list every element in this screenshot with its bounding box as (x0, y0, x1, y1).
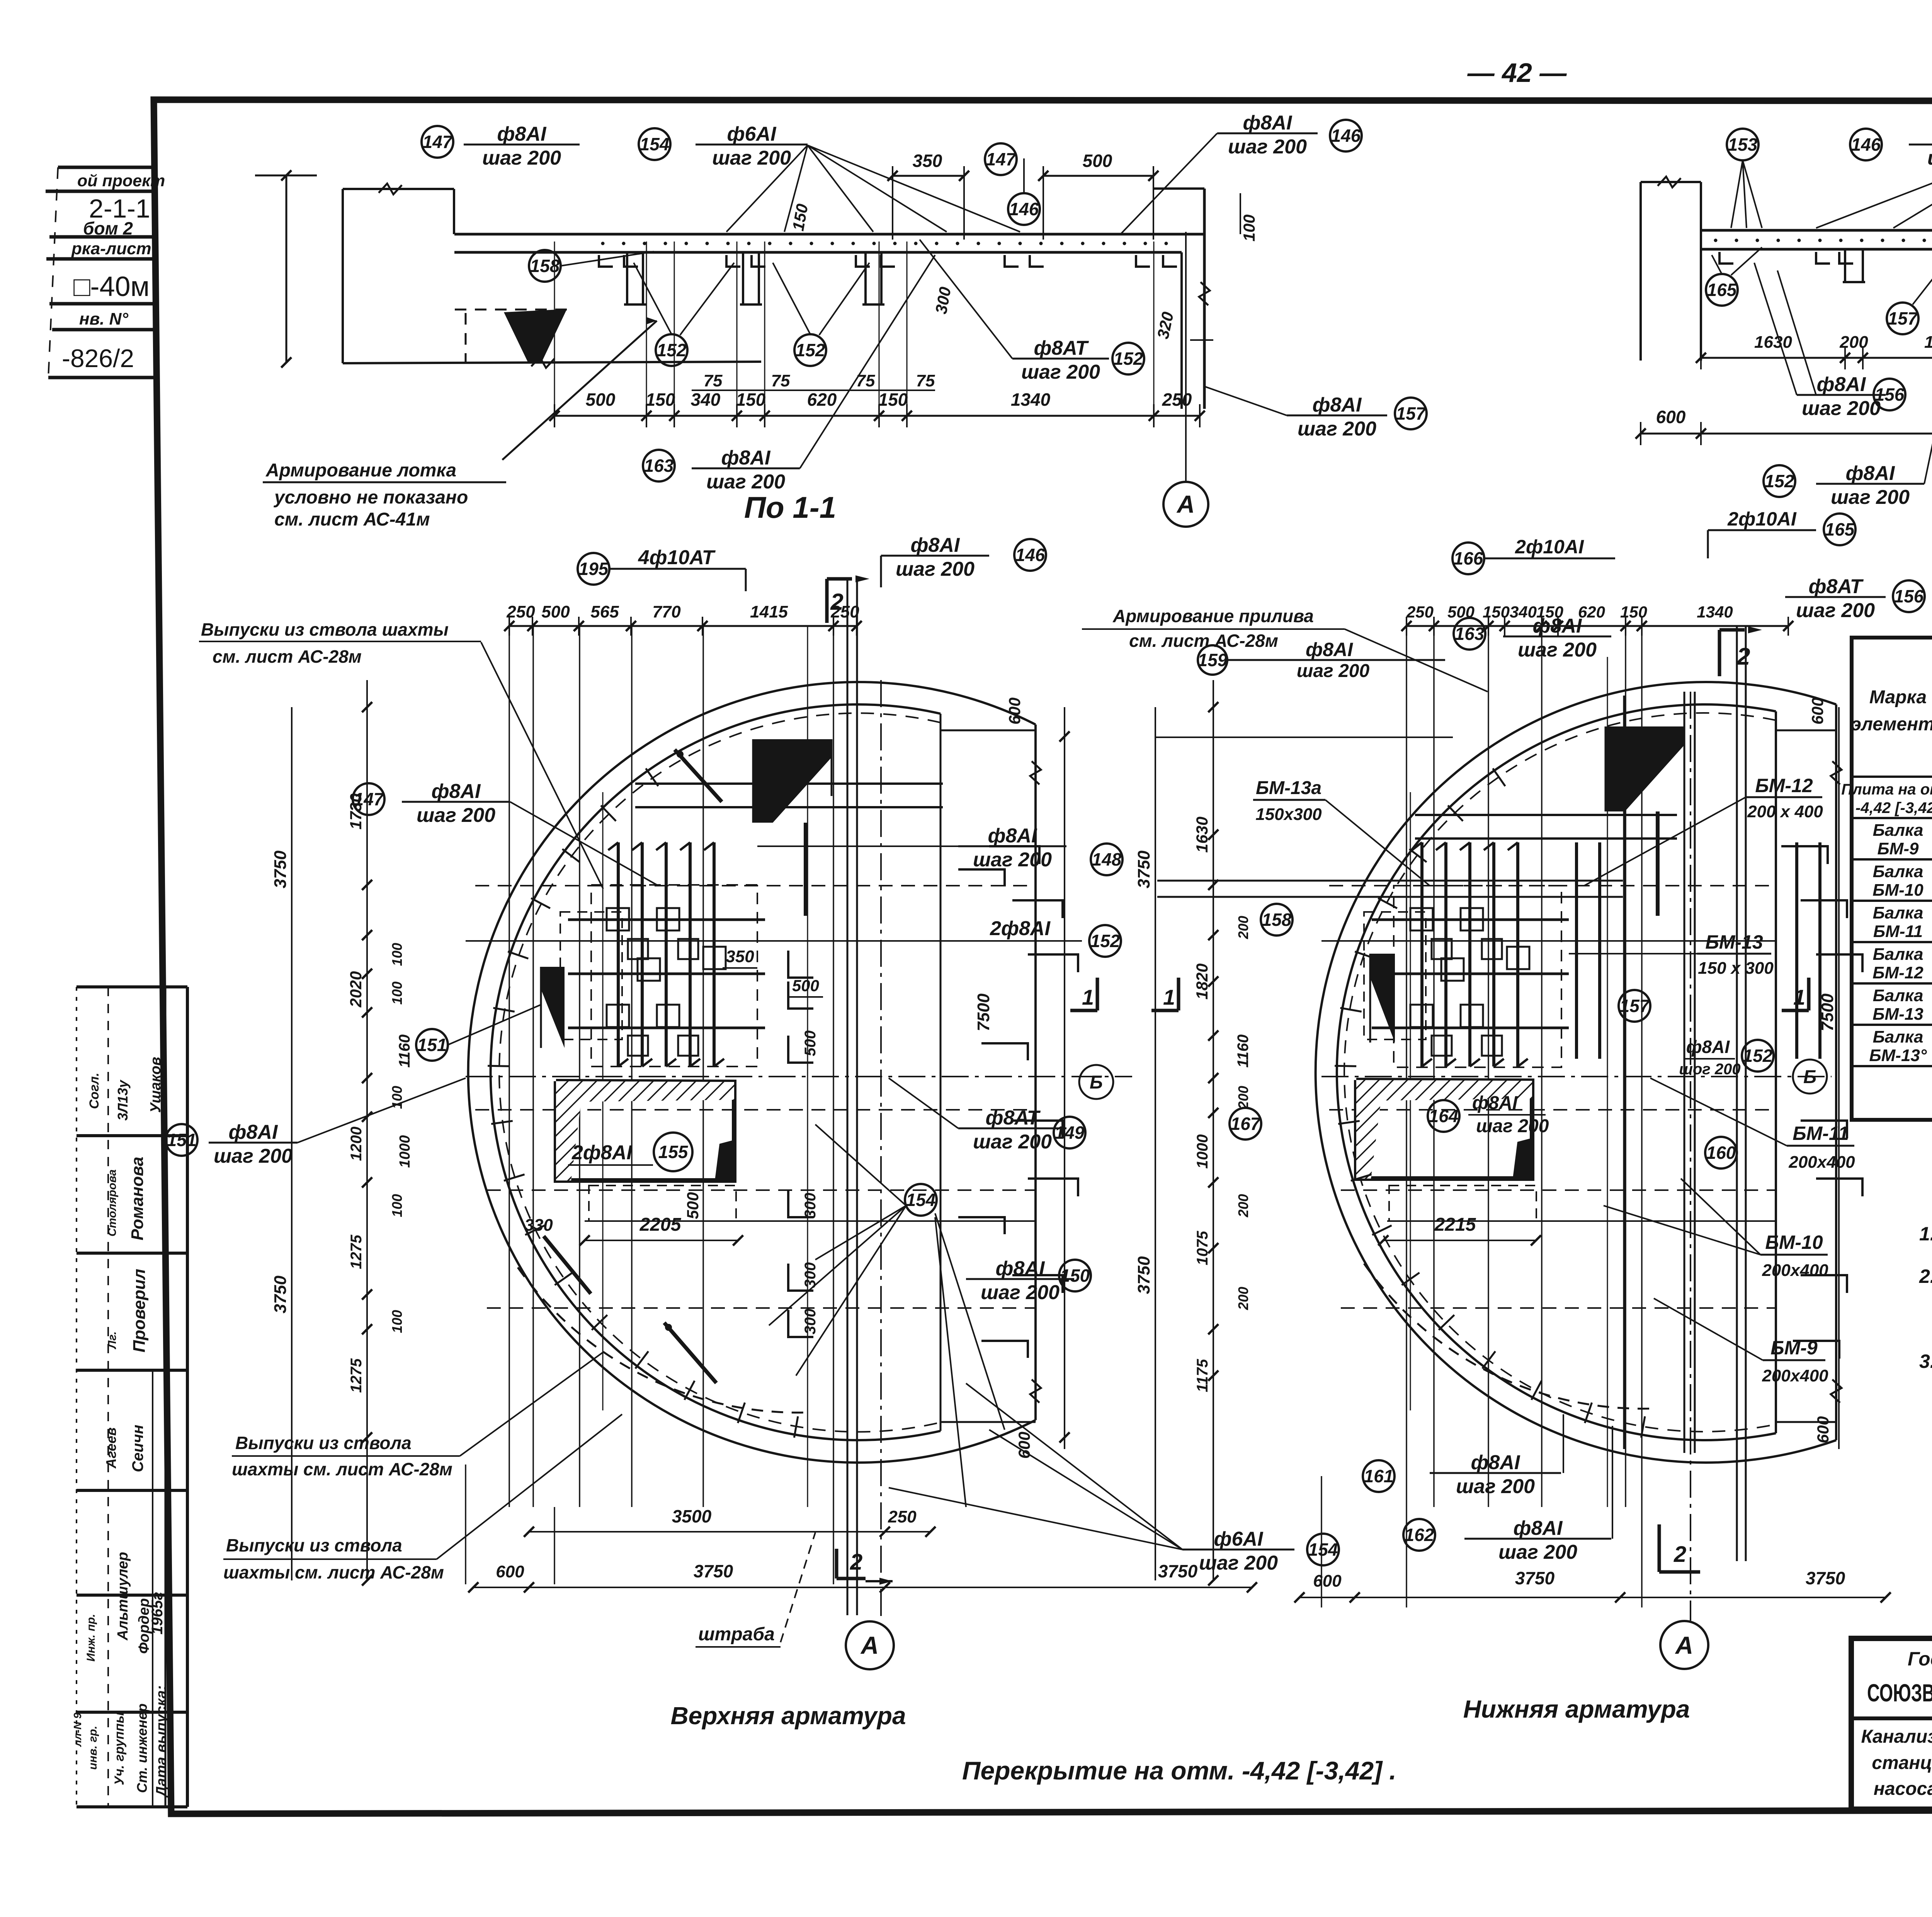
svg-text:350: 350 (726, 947, 754, 966)
svg-text:250: 250 (506, 602, 535, 621)
svg-text:500: 500 (1083, 151, 1112, 171)
shtraba dashed arc left plan (518, 1267, 811, 1413)
outer shaft circle right plan (1316, 682, 1836, 1463)
svg-text:100: 100 (389, 1194, 405, 1217)
svg-text:1075: 1075 (1194, 1231, 1211, 1266)
axis mark circle Б right plan (1793, 1060, 1827, 1094)
svg-text:Б: Б (1803, 1067, 1816, 1087)
svg-text:164: 164 (1429, 1106, 1459, 1126)
svg-text:БМ-10: БМ-10 (1765, 1232, 1823, 1253)
svg-text:Верхняя арматура: Верхняя арматура (670, 1702, 906, 1730)
svg-text:2: 2 (830, 589, 843, 615)
top chord lines right plan (1776, 730, 1836, 731)
svg-text:Сеичн: Сеичн (129, 1425, 146, 1472)
svg-text:1200: 1200 (348, 1127, 365, 1161)
svg-text:ф8АI: ф8АI (1472, 1093, 1518, 1113)
callout circle 157 (1395, 398, 1427, 429)
svg-text:Балка: Балка (1873, 1027, 1923, 1046)
svg-text:шаг 200: шаг 200 (1228, 136, 1307, 158)
rebar diagonal bottom left plan 1 (544, 1236, 591, 1294)
black wedge mid left plan (541, 967, 565, 1048)
dim 2205 under opening (585, 1240, 738, 1241)
svg-text:1160: 1160 (1235, 1034, 1252, 1068)
svg-text:шаг 200: шаг 200 (1021, 361, 1100, 383)
slab hooks section 1-1 (599, 255, 613, 267)
cluster vertical rebars right plan (1420, 842, 1423, 1067)
svg-text:шаг 200: шаг 200 (1796, 599, 1875, 622)
svg-text:330: 330 (524, 1216, 553, 1235)
svg-text:600: 600 (496, 1562, 524, 1581)
dimension row 2 section 2-2 (1641, 433, 1932, 435)
svg-text:насосами 2½НФ или 4НФ: насосами 2½НФ или 4НФ (1874, 1779, 1932, 1799)
svg-text:151: 151 (167, 1130, 197, 1150)
svg-text:шаг 200: шаг 200 (1199, 1552, 1278, 1574)
svg-text:см. лист АС-41м: см. лист АС-41м (274, 509, 430, 530)
horizontal beam lines top right plan (1415, 814, 1677, 816)
svg-text:ф8АТ: ф8АТ (986, 1107, 1041, 1129)
svg-text:3750: 3750 (1134, 1256, 1153, 1294)
svg-text:1820: 1820 (1924, 333, 1932, 352)
svg-text:2: 2 (1736, 643, 1750, 670)
svg-text:БМ-10: БМ-10 (1872, 881, 1923, 900)
long vertical rebars right plan (1575, 842, 1578, 1059)
svg-text:ф8АТ: ф8АТ (1034, 337, 1089, 359)
black corbel top right plan (1605, 726, 1685, 811)
bottom dims left plan row 1 (529, 1531, 930, 1533)
svg-text:154: 154 (906, 1190, 936, 1210)
svg-text:7500: 7500 (974, 993, 993, 1031)
callout circle 160 (1705, 1137, 1737, 1169)
svg-text:152: 152 (1765, 471, 1794, 491)
svg-text:ф8АI: ф8АI (1686, 1037, 1730, 1057)
svg-text:154: 154 (1308, 1539, 1338, 1560)
svg-text:Уч. группы: Уч. группы (112, 1712, 127, 1785)
svg-text:БМ-13: БМ-13 (1872, 1005, 1923, 1024)
svg-text:146: 146 (1331, 126, 1361, 146)
anchor ticks along left plan circle (794, 1416, 798, 1437)
svg-text:ф6АI: ф6АI (727, 123, 777, 145)
hatch band top of opening right plan (1356, 1080, 1532, 1101)
svg-text:1630: 1630 (1193, 816, 1211, 852)
callout circle 158 (529, 250, 561, 282)
corbel stem right plan (1656, 811, 1660, 916)
svg-text:шаг 200: шаг 200 (1476, 1116, 1549, 1136)
callout circle 146 (1850, 129, 1882, 160)
callout circle 165 (1824, 514, 1855, 545)
svg-text:шахты см. лист АС-28м: шахты см. лист АС-28м (232, 1459, 452, 1479)
svg-text:600: 600 (1814, 1416, 1832, 1443)
dashed circle left plan (499, 713, 940, 1432)
callout circle 158 (1261, 904, 1293, 936)
black corbel top left plan (753, 739, 832, 823)
callout circle 152 (1742, 1040, 1774, 1072)
svg-text:условно не показано: условно не показано (274, 487, 468, 508)
dim 2215 under opening right plan (1383, 1240, 1536, 1241)
svg-text:БМ-12: БМ-12 (1872, 963, 1923, 982)
svg-text:154: 154 (640, 134, 670, 154)
svg-text:Согл.: Согл. (87, 1073, 102, 1109)
svg-text:100: 100 (389, 1310, 405, 1333)
svg-text:500: 500 (541, 602, 570, 621)
callout circle 146 (1008, 193, 1040, 225)
callout circle 147 (353, 783, 384, 815)
right dim column right plan (1838, 707, 1840, 1449)
callout circle 146 (1330, 120, 1362, 151)
svg-text:166: 166 (1454, 548, 1483, 568)
svg-text:шаг 200: шаг 200 (1518, 639, 1597, 661)
grid verticals right plan (1406, 626, 1407, 1507)
svg-text:лл-N 9: лл-N 9 (71, 1713, 83, 1747)
svg-text:По 1-1: По 1-1 (744, 490, 836, 524)
callout circle 157 (1887, 303, 1918, 334)
leader fan from 146 (1816, 146, 1932, 228)
straight wall verticals left plan (847, 580, 849, 1615)
svg-text:300: 300 (802, 1193, 819, 1219)
svg-text:200: 200 (1235, 916, 1251, 939)
svg-text:200: 200 (1235, 1086, 1251, 1109)
left dim column right plan (1155, 707, 1156, 1580)
svg-text:Столярова: Столярова (106, 1169, 119, 1237)
svg-text:150х300: 150х300 (1255, 805, 1322, 824)
svg-text:шаг 200: шаг 200 (1498, 1541, 1577, 1563)
central cluster dashed rect right plan (1394, 886, 1561, 1067)
svg-text:Выпуски из ствола шахты: Выпуски из ствола шахты (201, 619, 449, 640)
right plan group (1134, 508, 1925, 1669)
svg-text:БМ-13: БМ-13 (1705, 931, 1763, 953)
svg-text:ф8АI: ф8АI (1817, 373, 1866, 396)
svg-text:1: 1 (1793, 985, 1805, 1009)
svg-text:рка-лист: рка-лист (71, 239, 151, 258)
cluster horizontal rebars right plan (1372, 919, 1569, 921)
corbel stem left plan (804, 823, 808, 916)
rebar diagonal bottom left plan 2 (664, 1323, 716, 1383)
callout circle 150 (1059, 1260, 1091, 1291)
svg-text:148: 148 (1092, 849, 1122, 869)
svg-text:3750: 3750 (1134, 850, 1153, 888)
svg-text:300: 300 (802, 1309, 819, 1335)
horizontal axis Б right plan (1321, 1076, 1832, 1077)
top chord lines left plan (940, 730, 1036, 731)
top-left stamp table (58, 166, 154, 169)
svg-text:500: 500 (586, 390, 616, 410)
hatch band left of opening (556, 1081, 583, 1180)
black corbel wedge section 1-1 (504, 309, 567, 364)
dashed rect below opening left plan (589, 1186, 736, 1221)
svg-text:600: 600 (1313, 1572, 1342, 1590)
svg-text:1415: 1415 (750, 602, 788, 621)
cluster small squares left plan (607, 908, 629, 930)
right wall section 1-1 (1180, 252, 1183, 409)
slab of section 2-2 (1701, 229, 1932, 232)
svg-text:4ф10АТ: 4ф10АТ (638, 546, 716, 569)
callout circle 147 (422, 126, 453, 158)
black wedge mid right plan (1370, 954, 1395, 1043)
extra hooks left plan right side (958, 869, 1005, 886)
callout circle 165 (1706, 274, 1738, 306)
svg-text:157: 157 (1620, 996, 1650, 1016)
svg-text:152: 152 (1743, 1046, 1773, 1066)
svg-text:шаг 200: шаг 200 (973, 1131, 1052, 1153)
svg-text:Нижняя арматура: Нижняя арматура (1463, 1695, 1690, 1723)
callout circle 159 (1198, 645, 1227, 675)
projection verticals below left plan (554, 1507, 555, 1584)
svg-text:153: 153 (1728, 134, 1758, 155)
hatch band top of opening (556, 1081, 734, 1102)
svg-text:шаг 200: шаг 200 (214, 1145, 293, 1167)
hook brackets right side left plan (989, 846, 1039, 864)
svg-text:шаг 200: шаг 200 (981, 1281, 1060, 1304)
svg-text:Ст. инженер: Ст. инженер (134, 1703, 150, 1793)
dim 350 section 1-1 (893, 175, 964, 177)
svg-text:шаг 200: шаг 200 (1802, 397, 1881, 420)
slab hooks section 2-2 (1719, 252, 1733, 264)
svg-text:шаг 200: шаг 200 (1298, 418, 1376, 440)
svg-text:ой проект: ой проект (77, 172, 165, 190)
svg-text:А: А (1176, 490, 1195, 518)
title block outer border (1851, 1638, 1932, 1809)
leader from corbel to label (502, 321, 657, 460)
svg-text:1. Опалубочные чертежи смотрет: 1. Опалубочные чертежи смотреть листы: А… (1919, 1223, 1932, 1245)
svg-text:600: 600 (1005, 697, 1024, 725)
svg-text:Альтшулер: Альтшулер (115, 1552, 131, 1641)
callout circle 152 (794, 334, 826, 366)
svg-text:3. Защитный слой бетона принят: 3. Защитный слой бетона принят 20 мм. (1919, 1351, 1932, 1372)
dimension row section 1-1 (554, 415, 1200, 417)
cluster vertical rebars left plan (617, 842, 620, 1067)
svg-text:3750: 3750 (694, 1561, 733, 1581)
extra cluster squares left plan (628, 939, 648, 959)
svg-text:100: 100 (389, 981, 405, 1005)
hatch band left of opening right plan (1356, 1080, 1383, 1179)
svg-text:ф8АI: ф8АI (996, 1257, 1045, 1280)
bottom lines section 1-1 (343, 362, 761, 363)
svg-text:100: 100 (389, 1086, 405, 1109)
svg-text:шаг 200: шаг 200 (1297, 661, 1370, 681)
notes group (1919, 1179, 1932, 1372)
svg-text:шаг 200: шаг 200 (1456, 1475, 1535, 1498)
svg-text:159: 159 (1198, 650, 1228, 670)
inner shaft circle right plan (1337, 704, 1776, 1440)
dashed rect below opening right plan (1389, 1186, 1536, 1221)
svg-text:147: 147 (354, 789, 384, 809)
svg-text:1630: 1630 (1754, 333, 1792, 352)
svg-text:156: 156 (1875, 384, 1905, 405)
dimension row 1 section 2-2 (1701, 357, 1932, 359)
svg-text:элемента: элемента (1851, 714, 1932, 735)
svg-text:163: 163 (644, 456, 674, 476)
svg-text:-4,42 [-3,42]: -4,42 [-3,42] (1855, 799, 1932, 816)
svg-text:770: 770 (652, 602, 681, 621)
section 2-2 group (1636, 123, 1932, 594)
svg-text:165: 165 (1825, 519, 1855, 539)
title block group (1851, 1638, 1932, 1851)
svg-text:200: 200 (1839, 333, 1868, 352)
svg-text:3Л13у: 3Л13у (115, 1079, 131, 1121)
svg-text:БМ-9: БМ-9 (1770, 1337, 1818, 1359)
svg-text:149: 149 (1055, 1123, 1085, 1143)
svg-text:1275: 1275 (348, 1358, 365, 1393)
svg-text:162: 162 (1405, 1525, 1434, 1545)
svg-text:ф8АI: ф8АI (497, 123, 547, 145)
hooks right side right plan (1781, 846, 1828, 864)
bottom dims left plan row 2 (473, 1587, 1252, 1588)
outer shaft circle left plan (468, 682, 1036, 1463)
table row lines (1852, 776, 1932, 778)
svg-text:100: 100 (389, 943, 405, 966)
svg-text:151: 151 (417, 1035, 447, 1055)
thin verticals to dim line section 1-1 (554, 242, 555, 416)
rib steps under slab section 2-2 (1844, 249, 1846, 282)
projection verticals below right plan (1406, 1507, 1407, 1607)
svg-text:150: 150 (646, 390, 675, 410)
svg-text:620: 620 (807, 390, 837, 410)
svg-text:СОЮЗВОДОКАНАЛПРОЕКТ: СОЮЗВОДОКАНАЛПРОЕКТ (1867, 1679, 1932, 1707)
svg-text:156: 156 (1894, 586, 1924, 606)
section mark 1 right plan (1782, 1009, 1809, 1012)
svg-text:1: 1 (1082, 985, 1094, 1009)
callout circle 152 (1764, 465, 1795, 497)
callout circle 155 (654, 1133, 692, 1171)
svg-text:Канализационная насосная: Канализационная насосная (1861, 1726, 1932, 1747)
anchor ticks along right plan circle (1641, 1416, 1645, 1437)
svg-text:Балка: Балка (1873, 862, 1923, 881)
svg-text:Госстрой СССР: Госстрой СССР (1908, 1648, 1932, 1670)
beam double lines top left plan (635, 782, 943, 785)
svg-text:Плита на отм: Плита на отм (1841, 781, 1932, 798)
view mark circle A section 1-1 (1163, 482, 1208, 527)
callout circle 154 (639, 128, 670, 160)
svg-text:ф8АI: ф8АI (1471, 1451, 1520, 1474)
svg-text:БМ-13а: БМ-13а (1256, 778, 1321, 798)
section cut flag 2 bottom left plan (835, 1549, 838, 1579)
svg-text:□-40м: □-40м (73, 271, 150, 302)
svg-text:150: 150 (1620, 603, 1647, 621)
svg-text:3750: 3750 (1515, 1568, 1555, 1588)
svg-text:2: 2 (850, 1550, 862, 1575)
svg-text:155: 155 (658, 1142, 689, 1162)
svg-text:157: 157 (1396, 403, 1427, 424)
svg-text:2020: 2020 (347, 971, 365, 1007)
svg-text:161: 161 (1364, 1466, 1394, 1486)
svg-text:600: 600 (1808, 697, 1827, 725)
second beam pair right plan (1157, 880, 1623, 882)
right dim column left plan (1064, 707, 1065, 1449)
callout circle 154 (1307, 1534, 1339, 1565)
svg-text:ф8АI: ф8АI (911, 534, 960, 556)
svg-text:БМ-12: БМ-12 (1755, 775, 1813, 796)
svg-text:165: 165 (1707, 280, 1737, 300)
svg-text:Лг.: Лг. (106, 1331, 119, 1349)
svg-text:ф8АI: ф8АI (1243, 112, 1293, 134)
svg-text:— 42 —: — 42 — (1467, 58, 1567, 88)
extra verticals left plan (602, 792, 604, 1410)
svg-text:150: 150 (1483, 603, 1510, 621)
svg-text:2: 2 (1673, 1542, 1686, 1567)
svg-text:шаг 200: шаг 200 (1831, 486, 1910, 509)
callout circle 162 (1403, 1519, 1435, 1551)
svg-text:БМ-11: БМ-11 (1793, 1123, 1849, 1144)
black wedge right of opening right plan (1513, 1138, 1532, 1179)
svg-text:шаг 200: шаг 200 (973, 849, 1052, 871)
svg-text:ф8АI: ф8АI (1313, 394, 1362, 416)
svg-text:Агеев: Агеев (103, 1427, 119, 1469)
svg-text:250: 250 (1406, 603, 1434, 621)
left dim column left plan (291, 707, 293, 1580)
callout circle 163 (643, 450, 675, 481)
inner shaft circle left plan (491, 704, 940, 1440)
svg-text:ф8АI: ф8АI (229, 1121, 278, 1143)
callout circle 157 (1619, 990, 1650, 1022)
svg-text:1175: 1175 (1194, 1359, 1211, 1392)
svg-text:2ф10АI: 2ф10АI (1727, 508, 1797, 530)
svg-text:ф8АI: ф8АI (1306, 639, 1353, 660)
svg-text:2ф10АI: 2ф10АI (1515, 536, 1584, 558)
svg-text:А: А (1675, 1631, 1693, 1659)
svg-text:бом 2: бом 2 (83, 218, 133, 238)
svg-text:1000: 1000 (397, 1135, 413, 1168)
rebar diagonal top left plan (675, 750, 722, 802)
svg-text:Балка: Балка (1873, 986, 1923, 1005)
materials table group (1841, 599, 1932, 1121)
extra verticals right plan (1410, 792, 1411, 1410)
svg-text:Романова: Романова (128, 1157, 147, 1240)
svg-text:шаг 200: шаг 200 (1927, 147, 1932, 169)
svg-text:200х400: 200х400 (1762, 1366, 1828, 1385)
dim 500 section 1-1 (1043, 175, 1153, 177)
svg-text:БМ-9: БМ-9 (1878, 839, 1919, 858)
svg-text:шаг 200: шаг 200 (712, 147, 791, 169)
svg-text:195: 195 (579, 559, 609, 579)
horizontal axis Б left plan (466, 1076, 1132, 1077)
callout circle 195 (578, 553, 609, 585)
view mark circle A right plan (1660, 1621, 1708, 1669)
table outer border (1852, 638, 1932, 1120)
svg-text:Перекрытие на отм. -4,42 [-3,4: Перекрытие на отм. -4,42 [-3,42] . (962, 1756, 1396, 1785)
svg-text:500: 500 (684, 1192, 702, 1219)
svg-text:шаг 200: шаг 200 (896, 558, 975, 580)
callout circle 156 (1893, 580, 1925, 612)
section cut flag 2 bottom right plan (1658, 1524, 1661, 1572)
svg-text:Балка: Балка (1873, 903, 1923, 922)
bottom dims right plan (1299, 1597, 1886, 1598)
svg-text:200: 200 (1235, 1287, 1251, 1310)
svg-text:ф8АI: ф8АI (1533, 615, 1582, 637)
svg-text:Фордер: Фордер (136, 1598, 152, 1654)
svg-text:А: А (860, 1631, 879, 1659)
callout circle 167 (1230, 1108, 1261, 1140)
title block horizontal lines (1851, 1716, 1932, 1720)
opening trapezoid right plan (1356, 1080, 1532, 1179)
svg-text:Выпуски из ствола: Выпуски из ствола (226, 1535, 402, 1555)
svg-text:75: 75 (704, 371, 723, 390)
leader fan from label 154 (726, 145, 808, 232)
svg-text:см. лист АС-28м: см. лист АС-28м (213, 646, 362, 667)
svg-text:ф8АI: ф8АI (432, 780, 481, 803)
svg-text:Инж. пр.: Инж. пр. (85, 1614, 97, 1662)
svg-text:147: 147 (986, 149, 1017, 169)
svg-text:БМ-13°: БМ-13° (1869, 1046, 1927, 1065)
svg-text:Выпуски из ствола: Выпуски из ствола (235, 1433, 412, 1453)
svg-text:500: 500 (802, 1031, 819, 1056)
svg-text:152: 152 (657, 340, 687, 360)
svg-text:2215: 2215 (1434, 1214, 1476, 1235)
svg-text:нв. N°: нв. N° (79, 310, 128, 328)
svg-text:Армирование прилива: Армирование прилива (1112, 606, 1314, 626)
axis mark circle Б left plan (1079, 1065, 1113, 1099)
svg-text:Марка: Марка (1869, 687, 1927, 708)
section cut flag 2 top left plan (825, 579, 829, 623)
svg-text:200х400: 200х400 (1762, 1261, 1828, 1280)
